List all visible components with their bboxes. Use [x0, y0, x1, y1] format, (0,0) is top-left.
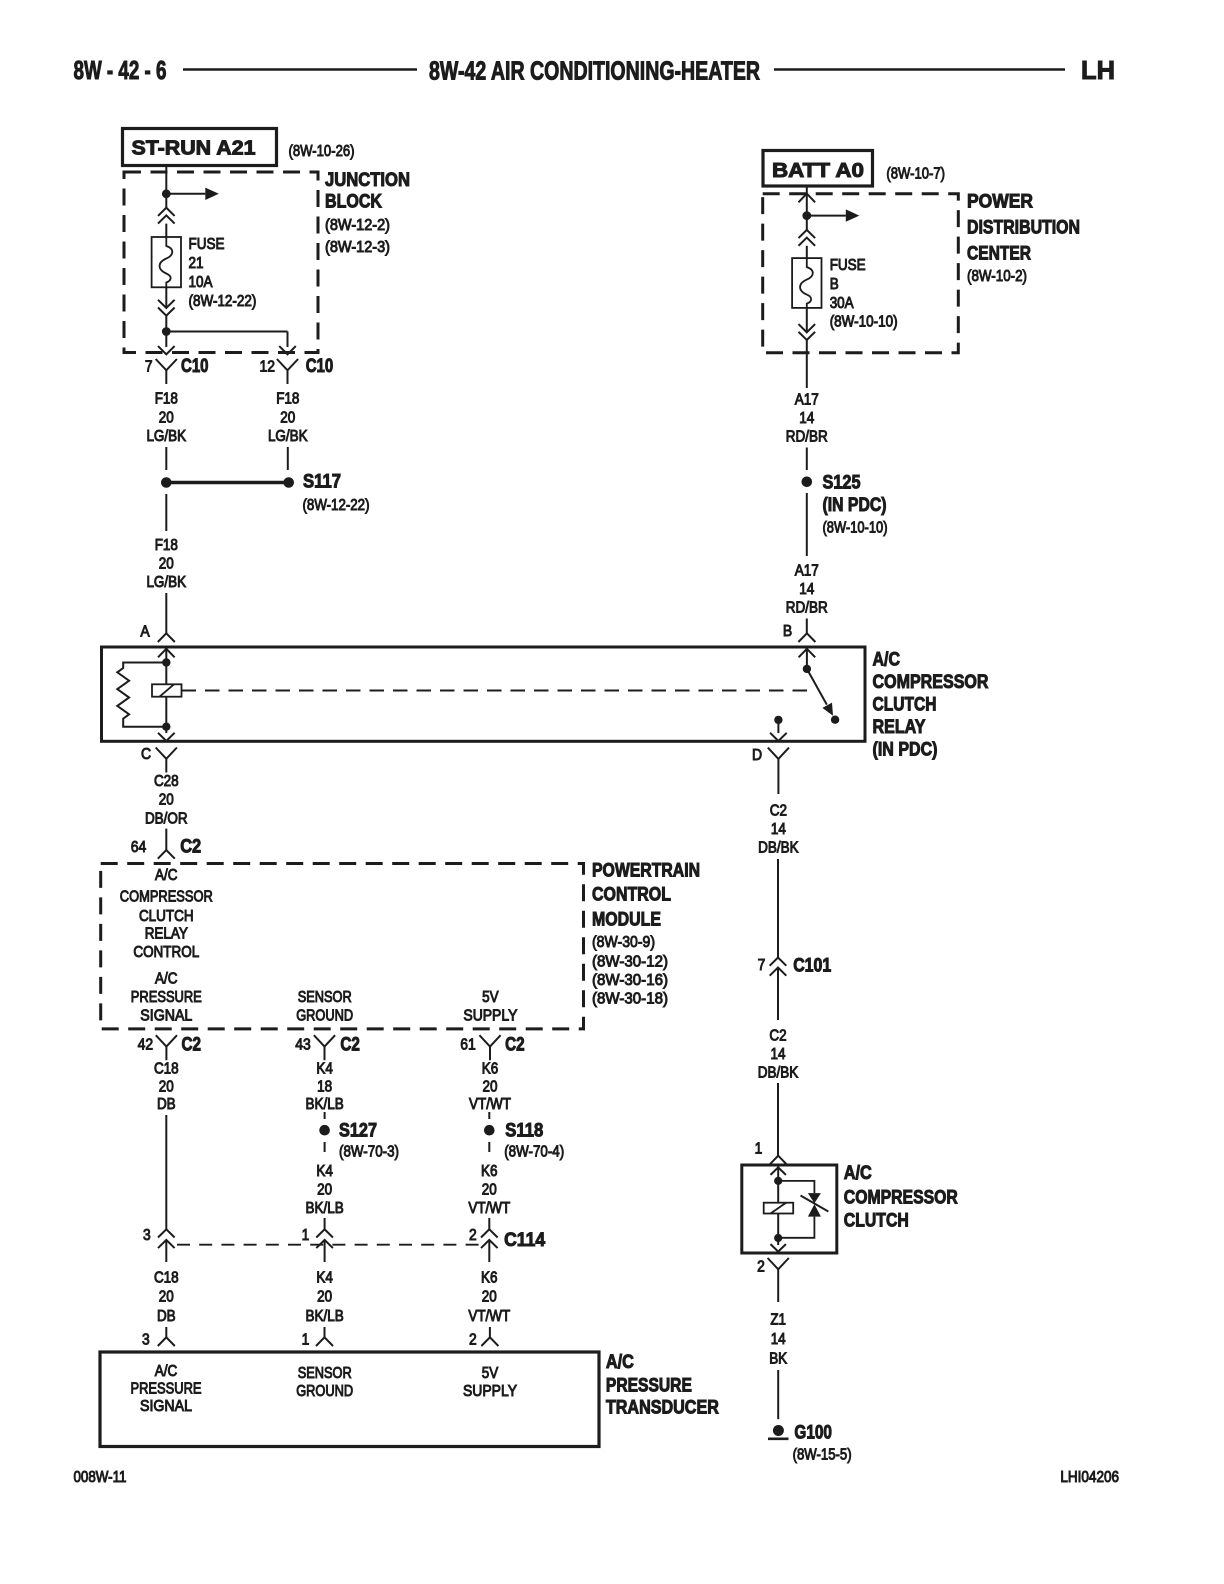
wire A17 below splice: [806, 493, 808, 556]
svg-text:14: 14: [771, 821, 786, 838]
connector C2 pin 43: [314, 1035, 335, 1046]
svg-text:RELAY: RELAY: [873, 717, 926, 738]
connector at relay pin D: [768, 748, 789, 759]
A/C pressure transducer box: [100, 1352, 599, 1447]
connector C114 pin 2 chevrons: [481, 1229, 498, 1237]
svg-text:20: 20: [159, 1079, 174, 1096]
A/C compressor clutch box: [742, 1165, 837, 1253]
wire C2 to clutch pin 1: [777, 1083, 779, 1156]
svg-text:2: 2: [469, 1331, 477, 1348]
svg-text:K4: K4: [316, 1060, 333, 1077]
wire to clutch pin 2: [777, 1238, 779, 1245]
inline connector chevrons above fuse B: [799, 230, 816, 238]
powertrain control module outline: [101, 864, 584, 1029]
svg-text:CENTER: CENTER: [967, 243, 1031, 264]
wire: [165, 194, 167, 208]
svg-text:BLOCK: BLOCK: [325, 192, 382, 213]
wire K6 below C114: [488, 1240, 490, 1262]
wire F18 right to splice S117: [287, 447, 289, 470]
svg-text:F18: F18: [155, 390, 178, 407]
svg-text:PRESSURE: PRESSURE: [131, 989, 202, 1006]
svg-text:A17: A17: [795, 392, 819, 409]
relay switch blade: [807, 669, 827, 705]
junction node at fuse B feed: [802, 211, 811, 220]
svg-text:DB: DB: [157, 1096, 176, 1113]
wire to relay pin D: [777, 720, 779, 733]
svg-text:GROUND: GROUND: [296, 1383, 353, 1400]
svg-text:1: 1: [302, 1227, 310, 1244]
relay coil top node: [162, 658, 170, 666]
entry arrow at relay pin A: [158, 649, 175, 658]
svg-text:C: C: [141, 746, 151, 763]
wire K4 to transducer pin 1: [324, 1327, 326, 1337]
svg-text:14: 14: [799, 410, 814, 427]
svg-text:A17: A17: [795, 562, 819, 579]
wire from ST-RUN A21 into junction block: [165, 166, 167, 194]
svg-text:18: 18: [317, 1079, 332, 1096]
svg-text:CLUTCH: CLUTCH: [139, 908, 194, 925]
wire K4 stub above S127: [324, 1112, 326, 1119]
splice S127: [319, 1125, 330, 1136]
connector half at relay pin A: [158, 633, 175, 642]
wire K4 below C114: [324, 1240, 326, 1262]
connector C2 pin 42: [156, 1035, 177, 1046]
power distribution center outline: [763, 194, 959, 353]
wire: [165, 332, 167, 348]
svg-text:(8W-12-2): (8W-12-2): [325, 217, 390, 234]
svg-text:LH: LH: [1081, 55, 1115, 85]
svg-text:S118: S118: [505, 1121, 543, 1142]
svg-text:FUSE: FUSE: [830, 257, 866, 274]
svg-text:A/C: A/C: [873, 649, 901, 670]
svg-text:K4: K4: [316, 1163, 333, 1180]
wire: [165, 647, 167, 663]
inline connector chevrons below fuse 21: [158, 300, 175, 308]
wire K6 stub below S118: [488, 1142, 490, 1152]
clutch coil: [764, 1203, 794, 1214]
svg-text:10A: 10A: [189, 274, 214, 291]
wire through relay coil: [165, 663, 167, 685]
svg-text:43: 43: [295, 1037, 311, 1054]
svg-text:DISTRIBUTION: DISTRIBUTION: [967, 217, 1080, 238]
svg-text:DB/BK: DB/BK: [758, 1064, 799, 1081]
wire through clutch coil: [777, 1181, 779, 1203]
svg-text:20: 20: [482, 1182, 497, 1199]
svg-text:SENSOR: SENSOR: [298, 989, 352, 1006]
svg-text:C18: C18: [154, 1060, 179, 1077]
svg-text:12: 12: [259, 358, 275, 375]
junction block outline: [124, 172, 318, 353]
svg-text:7: 7: [758, 957, 766, 974]
junction node splitting to C10 pins: [162, 327, 171, 336]
svg-text:(8W-12-22): (8W-12-22): [303, 497, 370, 514]
svg-text:8W-42 AIR CONDITIONING-HEATER: 8W-42 AIR CONDITIONING-HEATER: [429, 56, 760, 86]
splice S117 bus: [171, 481, 284, 485]
wire: [165, 697, 167, 727]
wire K4 to C114 pin 1: [324, 1218, 326, 1229]
wire from pin B to switch: [806, 647, 808, 669]
entry arrow at relay pin B: [799, 649, 816, 658]
connector C114 pin 1 chevrons: [316, 1229, 333, 1237]
svg-text:DB/BK: DB/BK: [758, 840, 799, 857]
svg-text:B: B: [830, 276, 839, 293]
svg-text:A/C: A/C: [844, 1163, 872, 1184]
svg-text:20: 20: [159, 1289, 174, 1306]
svg-text:BK/LB: BK/LB: [306, 1308, 344, 1325]
svg-text:SIGNAL: SIGNAL: [140, 1398, 192, 1415]
clutch coil top node: [774, 1177, 782, 1185]
A/C compressor clutch relay box: [102, 647, 866, 741]
relay coil bottom node: [162, 723, 170, 731]
svg-text:TRANSDUCER: TRANSDUCER: [606, 1398, 719, 1419]
svg-text:CONTROL: CONTROL: [133, 944, 199, 961]
svg-text:(IN PDC): (IN PDC): [873, 740, 938, 761]
svg-text:K4: K4: [316, 1270, 333, 1287]
svg-text:(8W-70-4): (8W-70-4): [504, 1144, 564, 1161]
svg-text:(8W-10-10): (8W-10-10): [823, 520, 888, 537]
connector C114 pin 3 chevrons: [158, 1229, 175, 1237]
svg-text:RD/BR: RD/BR: [786, 429, 828, 446]
wire: [287, 332, 289, 348]
svg-text:C10: C10: [181, 356, 209, 377]
svg-text:D: D: [752, 747, 762, 764]
svg-text:(8W-10-7): (8W-10-7): [886, 165, 945, 182]
svg-text:C2: C2: [769, 1027, 786, 1044]
svg-text:Z1: Z1: [770, 1312, 786, 1329]
svg-text:(8W-10-26): (8W-10-26): [289, 143, 355, 160]
svg-text:C2: C2: [182, 1035, 202, 1056]
svg-text:1: 1: [302, 1331, 310, 1348]
svg-text:61: 61: [460, 1037, 476, 1054]
svg-text:5V: 5V: [482, 989, 499, 1006]
svg-text:DB/OR: DB/OR: [145, 810, 188, 827]
svg-text:SUPPLY: SUPPLY: [463, 1383, 517, 1400]
svg-text:2: 2: [469, 1227, 477, 1244]
svg-text:8W - 42 - 6: 8W - 42 - 6: [74, 55, 167, 85]
svg-text:SENSOR: SENSOR: [298, 1365, 352, 1382]
svg-text:20: 20: [159, 792, 174, 809]
exit arrow at clutch pin 2: [771, 1244, 786, 1252]
svg-text:LHI04206: LHI04206: [1060, 1469, 1119, 1486]
svg-text:C2: C2: [340, 1035, 360, 1056]
wire K6 stub above S118: [488, 1112, 490, 1119]
zener diode pair: [808, 1193, 821, 1203]
svg-text:(8W-30-18): (8W-30-18): [592, 990, 668, 1007]
svg-text:(8W-30-12): (8W-30-12): [592, 953, 668, 970]
relay switch pivot: [803, 665, 811, 673]
svg-text:B: B: [783, 623, 792, 640]
svg-text:20: 20: [159, 410, 174, 427]
svg-text:(8W-30-9): (8W-30-9): [592, 934, 655, 951]
svg-text:30A: 30A: [830, 295, 855, 312]
wire: [777, 1283, 779, 1302]
splice S117 right node: [283, 477, 294, 488]
svg-text:G100: G100: [794, 1422, 832, 1443]
wire: [777, 773, 779, 795]
svg-text:14: 14: [771, 1331, 786, 1348]
wire K6 to transducer pin 2: [489, 1327, 491, 1337]
svg-text:SUPPLY: SUPPLY: [463, 1008, 517, 1025]
svg-text:LG/BK: LG/BK: [268, 428, 308, 445]
svg-text:7: 7: [145, 358, 153, 375]
fuse B 30A: [792, 258, 821, 308]
svg-text:1: 1: [755, 1141, 763, 1158]
svg-text:(8W-12-3): (8W-12-3): [325, 239, 390, 256]
svg-text:(8W-10-2): (8W-10-2): [967, 268, 1027, 285]
svg-text:C2: C2: [505, 1035, 524, 1056]
svg-text:SIGNAL: SIGNAL: [140, 1008, 192, 1025]
clutch suppression diode branch: [778, 1181, 814, 1193]
wire F18 to splice S117: [165, 447, 167, 470]
svg-text:(8W-30-16): (8W-30-16): [592, 972, 668, 989]
wire F18 to relay pin A: [165, 593, 167, 633]
wire to relay pin C: [165, 727, 167, 733]
wire: [806, 216, 808, 230]
svg-text:20: 20: [317, 1289, 332, 1306]
svg-text:64: 64: [131, 839, 147, 856]
wire F18 below splice: [165, 494, 167, 531]
svg-text:GROUND: GROUND: [296, 1008, 353, 1025]
fuse 21 10A: [152, 237, 181, 287]
wire: [165, 316, 167, 332]
svg-text:5V: 5V: [482, 1365, 499, 1382]
wire Z1 to ground G100: [777, 1370, 779, 1419]
svg-text:C101: C101: [793, 956, 831, 977]
wire C2 to C101: [777, 859, 779, 958]
wire A17 leaving PDC: [806, 340, 808, 388]
svg-text:K6: K6: [481, 1163, 498, 1180]
connector C2 pin 61: [479, 1035, 500, 1046]
svg-text:C114: C114: [504, 1230, 545, 1251]
connector C101 chevrons: [770, 958, 787, 966]
svg-text:20: 20: [483, 1079, 498, 1096]
svg-text:PRESSURE: PRESSURE: [131, 1381, 202, 1398]
svg-text:C2: C2: [180, 837, 201, 858]
svg-text:20: 20: [280, 410, 295, 427]
svg-text:DB: DB: [157, 1308, 176, 1325]
svg-text:BK/LB: BK/LB: [306, 1096, 344, 1113]
svg-text:LG/BK: LG/BK: [146, 574, 186, 591]
svg-text:A/C: A/C: [155, 867, 178, 884]
connector half at transducer pin 2: [481, 1337, 498, 1346]
svg-text:F18: F18: [276, 390, 299, 407]
connector at relay pin C: [156, 748, 177, 759]
svg-text:RELAY: RELAY: [145, 926, 188, 943]
svg-text:(8W-15-5): (8W-15-5): [793, 1447, 852, 1464]
connector half at relay pin B: [798, 633, 815, 642]
svg-text:CLUTCH: CLUTCH: [844, 1211, 909, 1232]
wire: [777, 1214, 779, 1239]
svg-text:VT/WT: VT/WT: [468, 1200, 510, 1217]
junction node at fuse 21 feed: [162, 189, 171, 198]
svg-text:COMPRESSOR: COMPRESSOR: [120, 888, 213, 905]
connector C10 pin 12: [277, 359, 298, 370]
svg-text:COMPRESSOR: COMPRESSOR: [873, 672, 989, 693]
relay pin D contact: [774, 716, 782, 724]
svg-text:A/C: A/C: [155, 971, 178, 988]
feed arrow into BATT A0: [799, 194, 816, 203]
svg-text:S117: S117: [303, 472, 341, 493]
connector C10 pin 7: [156, 359, 177, 370]
inline connector chevrons above fuse 21: [158, 208, 175, 216]
splice S118: [484, 1125, 495, 1136]
feed arrow to other circuits: [166, 193, 205, 195]
svg-text:(8W-70-3): (8W-70-3): [339, 1144, 399, 1161]
svg-text:JUNCTION: JUNCTION: [325, 170, 410, 191]
wire C2 below C101: [777, 968, 779, 1021]
svg-text:20: 20: [317, 1182, 332, 1199]
relay switch contact: [831, 716, 839, 724]
wire below fuse B: [806, 308, 808, 332]
svg-text:K6: K6: [481, 1270, 498, 1287]
exit arrow at relay pin C: [158, 733, 175, 741]
svg-text:VT/WT: VT/WT: [469, 1096, 511, 1113]
svg-text:C28: C28: [154, 773, 179, 790]
svg-text:F18: F18: [155, 537, 178, 554]
svg-text:3: 3: [142, 1331, 150, 1348]
splice S125: [802, 477, 813, 488]
node BATT A0 feed box: [763, 151, 873, 187]
svg-text:14: 14: [799, 581, 814, 598]
svg-text:BK/LB: BK/LB: [306, 1200, 344, 1217]
connector half at PCM pin 64: [158, 850, 175, 859]
wire A17 to relay pin B: [806, 619, 808, 634]
svg-text:CLUTCH: CLUTCH: [873, 695, 937, 716]
svg-text:POWER: POWER: [967, 191, 1033, 212]
svg-text:3: 3: [143, 1227, 151, 1244]
entry arrow at clutch pin 1: [771, 1167, 786, 1175]
svg-text:VT/WT: VT/WT: [468, 1308, 510, 1325]
relay coil: [152, 684, 182, 696]
svg-text:S125: S125: [823, 473, 861, 494]
svg-text:BK: BK: [769, 1351, 788, 1368]
connector C114 dashed tie line: [177, 1244, 479, 1246]
svg-text:PRESSURE: PRESSURE: [606, 1376, 692, 1397]
svg-text:2: 2: [757, 1259, 765, 1276]
svg-text:14: 14: [771, 1046, 786, 1063]
svg-text:RD/BR: RD/BR: [786, 599, 828, 616]
svg-text:A/C: A/C: [606, 1352, 634, 1373]
connector half at transducer pin 1: [316, 1337, 333, 1346]
svg-text:008W-11: 008W-11: [74, 1469, 127, 1486]
ground G100 symbol dot: [773, 1425, 784, 1436]
exit arrow at C10 pin 12: [279, 346, 296, 354]
svg-text:S127: S127: [339, 1121, 377, 1142]
svg-text:(8W-12-22): (8W-12-22): [189, 293, 257, 310]
svg-text:K6: K6: [482, 1060, 499, 1077]
wire from BATT A0 into PDC: [806, 186, 808, 216]
svg-text:C2: C2: [770, 803, 787, 820]
exit arrow at C10 pin 7: [158, 346, 175, 354]
inline connector chevrons below fuse B: [799, 324, 816, 332]
branch wire to C10 pin 12: [166, 331, 287, 333]
dashed actuation line from coil to switch: [182, 690, 812, 692]
svg-text:COMPRESSOR: COMPRESSOR: [844, 1188, 958, 1209]
svg-text:LG/BK: LG/BK: [146, 428, 186, 445]
svg-text:42: 42: [138, 1037, 154, 1054]
wire C18 below C114: [165, 1240, 167, 1262]
svg-text:A: A: [140, 624, 150, 641]
wire K4 stub below S127: [324, 1142, 326, 1152]
feed arrow to other circuits right: [807, 215, 846, 217]
node ST-RUN A21 feed box: [123, 129, 277, 166]
connector half at clutch pin 1: [770, 1156, 787, 1165]
wire: [806, 246, 808, 258]
svg-text:BATT A0: BATT A0: [772, 160, 864, 182]
svg-text:20: 20: [482, 1289, 497, 1306]
svg-text:A/C: A/C: [155, 1363, 178, 1380]
svg-text:20: 20: [159, 555, 174, 572]
splice S117 left node: [161, 477, 172, 488]
svg-text:FUSE: FUSE: [189, 236, 225, 253]
svg-text:(8W-10-10): (8W-10-10): [830, 313, 898, 330]
wire C18 down to C114 pin 3: [165, 1115, 167, 1229]
wire: [774, 68, 1065, 70]
clutch coil bottom node: [774, 1234, 782, 1242]
wire C28 to PCM pin 64: [165, 829, 167, 850]
svg-text:MODULE: MODULE: [592, 909, 661, 930]
wire: [777, 1165, 779, 1181]
wire C18 to transducer pin 3: [165, 1327, 167, 1337]
svg-text:CONTROL: CONTROL: [592, 885, 671, 906]
wire A17 to splice S125: [806, 448, 808, 471]
svg-text:21: 21: [189, 255, 204, 272]
exit arrow at relay pin D: [770, 733, 787, 741]
connector half at transducer pin 3: [158, 1337, 175, 1346]
wire: [183, 68, 417, 70]
wire K6 to C114 pin 2: [488, 1218, 490, 1229]
svg-text:C18: C18: [154, 1270, 179, 1287]
relay resistor (parallel with coil): [117, 663, 166, 727]
wire: [165, 224, 167, 237]
ground G100 bar: [768, 1438, 789, 1441]
svg-text:(IN PDC): (IN PDC): [823, 495, 887, 516]
svg-text:POWERTRAIN: POWERTRAIN: [592, 860, 700, 881]
svg-text:ST-RUN A21: ST-RUN A21: [132, 138, 256, 160]
svg-text:C10: C10: [306, 356, 334, 377]
wire below fuse 21: [165, 287, 167, 307]
connector at clutch pin 2: [768, 1258, 789, 1269]
